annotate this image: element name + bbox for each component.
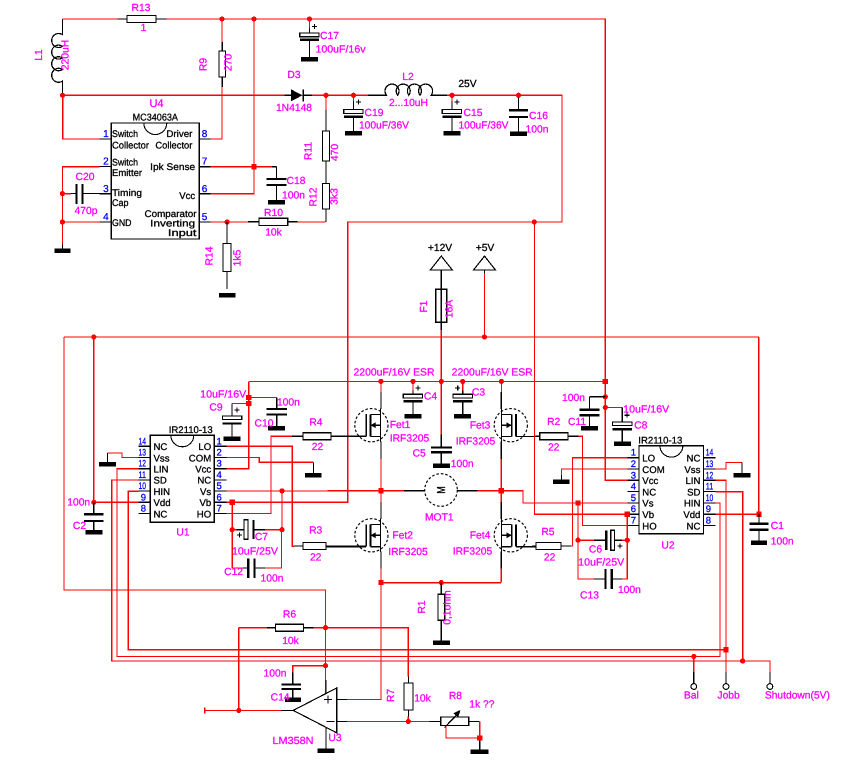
junction C4 xyxy=(410,379,415,384)
svg-text:Vdd: Vdd xyxy=(683,510,700,521)
capacitor C4 xyxy=(403,386,422,414)
resistor R14 xyxy=(223,222,231,289)
label Shutdown(5V) xyxy=(765,691,830,702)
svg-text:GND: GND xyxy=(112,218,132,229)
junction Vdd drop xyxy=(91,334,96,339)
svg-text:Bal: Bal xyxy=(684,691,699,702)
svg-text:5: 5 xyxy=(631,493,636,504)
svg-text:100uF/36V: 100uF/36V xyxy=(459,121,509,132)
svg-text:6: 6 xyxy=(217,492,222,503)
label C14 xyxy=(271,693,290,704)
svg-text:100n: 100n xyxy=(562,393,585,404)
svg-text:C1: C1 xyxy=(771,521,784,532)
wire +5V rail xyxy=(64,336,759,338)
value R8 1k ?? xyxy=(469,700,494,711)
ground C11 xyxy=(581,426,598,431)
value C7 10uF/25V xyxy=(232,547,278,558)
wire Fet2 source xyxy=(380,552,382,583)
pin number U2-12 xyxy=(706,470,714,481)
wire LIN U1 to HIN U2 bus xyxy=(117,469,720,657)
value R2 22 xyxy=(548,443,560,454)
svg-text:R10: R10 xyxy=(264,208,283,219)
label C6 xyxy=(589,545,602,556)
svg-text:10uF/25V: 10uF/25V xyxy=(578,558,624,569)
label C7 xyxy=(255,532,268,543)
svg-text:1: 1 xyxy=(103,129,109,140)
wire rail to Vcc U2 xyxy=(605,381,627,480)
wire COM U2 to ground xyxy=(561,469,627,475)
pin label U2 LIN xyxy=(685,476,700,487)
ground C16 xyxy=(510,132,527,137)
svg-text:100uF/36V: 100uF/36V xyxy=(359,121,409,132)
svg-text:Vdd: Vdd xyxy=(154,498,171,509)
pin number U1-5 xyxy=(217,481,222,492)
junction R7 output xyxy=(406,719,411,724)
svg-text:1k5: 1k5 xyxy=(233,249,244,266)
svg-text:R11: R11 xyxy=(304,142,315,160)
value L1 220uH xyxy=(61,40,72,70)
pin number U4-7 xyxy=(202,157,208,168)
resistor R12 xyxy=(322,183,329,222)
wire node to pin1 U4 xyxy=(63,95,100,139)
svg-text:2...10uH: 2...10uH xyxy=(389,98,428,109)
value C12 100n xyxy=(261,574,284,585)
value C13 100n xyxy=(618,585,641,596)
junction +5V arrow xyxy=(482,334,487,339)
node +5V xyxy=(476,243,495,254)
wire pin7 to C18 xyxy=(211,166,272,168)
wire L1 to D3 xyxy=(63,94,285,96)
wire COM U1 to ground xyxy=(226,458,313,463)
pin number U1-3 xyxy=(217,459,222,470)
wire opamp minus to R8 xyxy=(347,721,430,723)
svg-text:M: M xyxy=(436,486,448,494)
svg-text:14: 14 xyxy=(706,448,714,459)
junction C15 xyxy=(449,93,454,98)
capacitor C6 xyxy=(578,530,627,550)
svg-text:R8: R8 xyxy=(449,691,462,702)
pin label U2 HIN xyxy=(684,499,701,510)
svg-text:C3: C3 xyxy=(472,388,485,399)
pin number U4-3 xyxy=(103,184,109,195)
label C8 xyxy=(634,421,647,432)
ground U4 emitter xyxy=(54,245,70,254)
pin label U1 COM xyxy=(189,453,211,464)
pin label U2 NC xyxy=(687,521,701,532)
svg-text:NC: NC xyxy=(687,521,701,532)
svg-text:IRF3205: IRF3205 xyxy=(453,547,493,558)
pin label U2 NC xyxy=(687,454,701,465)
pin label U4 GND xyxy=(112,218,132,229)
label R3 xyxy=(309,526,322,537)
svg-text:Input: Input xyxy=(168,228,197,239)
svg-text:C14: C14 xyxy=(271,693,290,704)
pin number U2-2 xyxy=(631,459,636,470)
value C6 10uF/25V xyxy=(578,558,624,569)
svg-text:C15: C15 xyxy=(464,108,483,119)
svg-text:Shutdown(5V): Shutdown(5V) xyxy=(765,691,830,702)
junction L1 bottom xyxy=(60,93,65,98)
transistor Fet4 IRF3205 xyxy=(494,519,536,552)
resistor R2 xyxy=(535,433,579,440)
pin label U2 SD xyxy=(687,487,700,498)
svg-text:R12: R12 xyxy=(309,187,320,206)
value Fet2 IRF3205 xyxy=(388,547,428,558)
wire Bal drop xyxy=(693,656,695,671)
junction Bal bus xyxy=(691,654,696,659)
svg-text:Vcc: Vcc xyxy=(195,465,211,476)
wire C16 stub xyxy=(518,95,520,97)
capacitor C16 xyxy=(509,98,528,132)
junction C20 left xyxy=(60,191,65,196)
op-amp U3 LM358N xyxy=(281,680,347,749)
capacitor C18 xyxy=(266,167,286,200)
svg-text:NC: NC xyxy=(687,454,701,465)
svg-text:1: 1 xyxy=(141,23,147,34)
svg-text:270: 270 xyxy=(224,54,235,71)
label R1 xyxy=(417,600,428,613)
value C11 100n xyxy=(562,393,585,404)
label R13 xyxy=(132,3,151,14)
capacitor C11 xyxy=(579,397,605,426)
wire Vdd U1 xyxy=(94,501,139,503)
svg-text:Vcc: Vcc xyxy=(179,191,195,202)
wire R6 right to R7 xyxy=(313,628,408,677)
value R3 22 xyxy=(310,553,322,564)
pin label U4 Vcc xyxy=(179,191,195,202)
svg-text:22: 22 xyxy=(312,442,324,453)
label C1 xyxy=(771,521,784,532)
pin label U1 NC xyxy=(197,476,211,487)
svg-text:F1: F1 xyxy=(419,300,430,312)
value U4 MC34063A xyxy=(133,113,179,124)
svg-text:NC: NC xyxy=(154,442,168,453)
label C12 xyxy=(224,567,243,578)
wire R8 wiper loop xyxy=(446,722,480,738)
motor MOT1 xyxy=(404,474,478,507)
pin number U1-9 xyxy=(141,492,146,503)
svg-text:R7: R7 xyxy=(386,689,397,702)
svg-text:C16: C16 xyxy=(529,111,548,122)
wire C15 stub xyxy=(451,95,453,101)
wire motor left xyxy=(381,490,404,492)
junction C11 xyxy=(603,394,608,399)
svg-text:100n: 100n xyxy=(451,459,474,470)
label R14 xyxy=(205,246,216,265)
pin number U2-5 xyxy=(631,493,636,504)
label L1 xyxy=(34,49,45,61)
junction C6 right xyxy=(625,538,630,543)
svg-text:0,1ohm: 0,1ohm xyxy=(443,590,454,624)
junction C1 xyxy=(756,512,761,517)
wire C3 stub xyxy=(462,381,464,390)
junction Fet3 drain xyxy=(499,379,504,384)
svg-text:Vss: Vss xyxy=(684,465,700,476)
wire Fet4 source xyxy=(500,552,502,583)
value C8 10uF/16V xyxy=(623,405,669,416)
svg-text:Emitter: Emitter xyxy=(112,168,143,179)
svg-text:Collector: Collector xyxy=(155,140,193,151)
junction R8 ground xyxy=(477,735,482,740)
svg-text:10uF/25V: 10uF/25V xyxy=(232,547,278,558)
pin number U4-4 xyxy=(103,212,109,223)
connector Jobb xyxy=(723,672,729,690)
power +5V arrow xyxy=(474,256,496,273)
svg-text:11: 11 xyxy=(706,482,714,493)
pin number U4-8 xyxy=(202,129,208,140)
pin label U2 Vcc xyxy=(642,476,658,487)
svg-text:2: 2 xyxy=(217,448,222,459)
wire HO U2 to R2 xyxy=(579,436,628,525)
pin number U2-11 xyxy=(706,482,714,493)
svg-text:IR2110-13: IR2110-13 xyxy=(169,425,213,436)
svg-text:U1: U1 xyxy=(176,528,189,539)
value C1 100n xyxy=(771,537,794,548)
wire LIN U2 drop xyxy=(716,480,726,650)
wire pin4 GND xyxy=(62,221,99,223)
svg-text:9: 9 xyxy=(141,492,146,503)
label C11 xyxy=(568,417,586,428)
svg-text:MC34063A: MC34063A xyxy=(133,113,179,124)
pin number U2-10 xyxy=(706,493,714,504)
svg-text:Vs: Vs xyxy=(200,487,211,498)
label MOT1 xyxy=(425,513,454,524)
wire Vs U2 jog xyxy=(501,491,627,503)
svg-text:22: 22 xyxy=(310,553,322,564)
resistor R13 xyxy=(118,16,167,23)
pin label U1 NC xyxy=(154,442,168,453)
label U4 xyxy=(149,98,163,110)
label R7 xyxy=(386,689,397,702)
wire output end tick xyxy=(204,707,206,713)
pin number U1-13 xyxy=(139,448,147,459)
pin number U4-5 xyxy=(202,212,208,223)
svg-text:100n: 100n xyxy=(277,398,300,409)
svg-text:100n: 100n xyxy=(771,537,794,548)
diode D3 1N4148 xyxy=(285,89,313,101)
label C18 xyxy=(287,176,306,187)
svg-text:470: 470 xyxy=(330,144,341,161)
ground C5 xyxy=(433,464,450,469)
junction motor right xyxy=(499,488,504,493)
value C18 100n xyxy=(282,191,305,202)
value C10 100n xyxy=(277,398,300,409)
ground C15 xyxy=(444,131,461,136)
ground C3 xyxy=(454,414,471,419)
svg-text:100n: 100n xyxy=(282,191,305,202)
wire motor right to Vs U2 xyxy=(478,490,502,492)
svg-text:3k3: 3k3 xyxy=(330,188,341,205)
value R11 470 xyxy=(330,144,341,161)
pin number U2-8 xyxy=(706,516,711,527)
pin label U1 LO xyxy=(198,442,211,453)
resistor R11 xyxy=(322,110,329,183)
junction R14 top xyxy=(225,219,230,224)
svg-text:22: 22 xyxy=(548,443,560,454)
svg-text:C13: C13 xyxy=(580,591,599,602)
junction feedback xyxy=(236,708,241,713)
pin label U1 Vcc xyxy=(195,465,211,476)
svg-text:100n: 100n xyxy=(526,125,549,136)
svg-text:1N4148: 1N4148 xyxy=(276,103,312,114)
potentiometer R8 xyxy=(430,710,480,728)
label R2 xyxy=(547,417,560,428)
wire R10 to R12 xyxy=(298,221,326,223)
power +12V arrow xyxy=(430,256,452,289)
junction Fet1 drain xyxy=(378,379,383,384)
resistor R7 xyxy=(404,677,413,717)
value R5 22 xyxy=(544,553,556,564)
junction C9 xyxy=(246,401,251,406)
svg-text:12: 12 xyxy=(706,470,714,481)
label C5 xyxy=(413,449,426,460)
connector Shutdown xyxy=(767,672,773,690)
wire +5V to opamp supply xyxy=(64,337,326,694)
junction R1 xyxy=(439,580,444,585)
svg-text:Vb: Vb xyxy=(642,510,654,521)
label Fet2 xyxy=(392,531,413,542)
svg-text:Fet4: Fet4 xyxy=(470,531,491,542)
pin label U1 HIN xyxy=(154,487,171,498)
svg-text:LO: LO xyxy=(198,442,211,453)
ground COM U2 xyxy=(553,475,570,484)
capacitor C9 xyxy=(222,403,249,436)
wire LO U1 to R3 xyxy=(226,446,294,546)
wire +5V to Vdd U2 xyxy=(758,337,760,514)
label Fet4 xyxy=(470,531,491,542)
svg-text:220uH: 220uH xyxy=(61,40,72,70)
node 25V xyxy=(458,79,476,90)
svg-text:100n: 100n xyxy=(618,585,641,596)
wire Vss U2 to ground xyxy=(716,463,742,470)
label R12 xyxy=(309,187,320,206)
pin number U2-9 xyxy=(706,504,711,515)
svg-text:Vcc: Vcc xyxy=(642,476,658,487)
ground Vss U2 xyxy=(733,463,750,478)
wire Fet3 source to motor node xyxy=(500,441,502,490)
wire Vs U2 riser to C6 xyxy=(577,503,579,540)
transistor Fet2 IRF3205 xyxy=(326,519,388,552)
pin label U1 NC xyxy=(154,509,168,520)
label C15 xyxy=(464,108,483,119)
junction C7 right riser xyxy=(279,488,284,493)
ground COM U1 xyxy=(305,462,322,477)
svg-text:HO: HO xyxy=(642,521,656,532)
svg-text:C11: C11 xyxy=(568,417,586,428)
connector Bal xyxy=(691,672,697,690)
transistor Fet1 IRF3205 xyxy=(331,409,388,442)
svg-text:Ipk Sense: Ipk Sense xyxy=(150,162,195,173)
ground C10 xyxy=(268,426,285,431)
value U2 IR2110-13 xyxy=(638,435,682,446)
value C20 470p xyxy=(75,206,98,217)
pin label U2 Vdd xyxy=(683,510,700,521)
value U3 LM358N xyxy=(273,736,314,747)
svg-text:C9: C9 xyxy=(209,403,222,414)
wire Vb riser to C7 xyxy=(231,502,233,529)
svg-text:100uF/16v: 100uF/16v xyxy=(316,45,367,56)
pin label U2 Vs xyxy=(642,499,653,510)
pin label U2 LO xyxy=(642,454,655,465)
wire R6 left lead xyxy=(239,627,267,629)
capacitor C17 xyxy=(300,24,319,57)
junction C7 left xyxy=(230,527,235,532)
svg-text:7: 7 xyxy=(202,157,208,168)
pin label U2 COM xyxy=(642,465,664,476)
svg-text:C10: C10 xyxy=(255,419,274,430)
svg-text:IRF3205: IRF3205 xyxy=(390,434,430,445)
pin label U4 Comparator Inverting Input xyxy=(145,209,198,239)
junction C7 right xyxy=(279,527,284,532)
pin number U1-1 xyxy=(217,436,222,447)
svg-text:16A: 16A xyxy=(445,300,456,318)
pin number U1-11 xyxy=(139,470,147,481)
label C9 xyxy=(209,403,222,414)
pin label U1 LIN xyxy=(154,465,169,476)
svg-text:LM358N: LM358N xyxy=(273,736,314,747)
resistor R9 xyxy=(219,42,226,87)
value C2 100n xyxy=(67,498,90,509)
svg-text:5: 5 xyxy=(202,212,208,223)
pin label U1 Vs xyxy=(200,487,211,498)
value R12 3k3 xyxy=(330,188,341,205)
pin number U4-6 xyxy=(202,184,208,195)
pin number U2-14 xyxy=(706,448,714,459)
label D3 xyxy=(287,70,300,81)
ground C18 xyxy=(268,200,285,205)
label C20 xyxy=(76,172,95,183)
value D3 1N4148 xyxy=(276,103,312,114)
svg-text:C19: C19 xyxy=(365,108,384,119)
ground C8 xyxy=(614,441,631,446)
svg-text:10k: 10k xyxy=(282,636,299,647)
junction Jobb bus xyxy=(723,647,728,652)
value C15 100uF/36V xyxy=(459,121,509,132)
resistor R3 xyxy=(294,543,366,550)
resistor R4 xyxy=(292,433,366,440)
svg-text:2200uF/16V ESR: 2200uF/16V ESR xyxy=(354,368,435,379)
svg-text:6: 6 xyxy=(631,504,636,515)
wire Fet2 drain xyxy=(380,491,382,519)
ground C19 xyxy=(345,131,362,136)
junction C3 xyxy=(460,379,465,384)
junction Vcc feed xyxy=(251,16,256,21)
value C16 100n xyxy=(526,125,549,136)
capacitor C20 xyxy=(62,184,111,204)
wire Vss U1 to ground xyxy=(108,453,139,458)
svg-text:C7: C7 xyxy=(255,532,268,543)
svg-text:470p: 470p xyxy=(75,206,98,217)
pin label U1 Vss xyxy=(154,453,170,464)
svg-text:100n: 100n xyxy=(67,498,90,509)
svg-text:Fet3: Fet3 xyxy=(470,421,491,432)
wire HO U1 to R4 xyxy=(226,436,292,513)
junction Fet2 source xyxy=(378,580,383,585)
ground C4 xyxy=(405,414,422,419)
svg-text:R13: R13 xyxy=(132,3,151,14)
svg-text:R5: R5 xyxy=(541,527,554,538)
label R10 xyxy=(264,208,283,219)
svg-text:C4: C4 xyxy=(424,392,437,403)
value C19 100uF/36V xyxy=(359,121,409,132)
wire top rail to bridge rail xyxy=(167,19,606,381)
value R10 10k xyxy=(265,228,282,239)
svg-text:7: 7 xyxy=(217,504,222,515)
value C3 xyxy=(0,0,1,1)
svg-text:R2: R2 xyxy=(547,417,560,428)
ground C1 xyxy=(751,541,767,546)
capacitor C7 xyxy=(232,520,282,539)
